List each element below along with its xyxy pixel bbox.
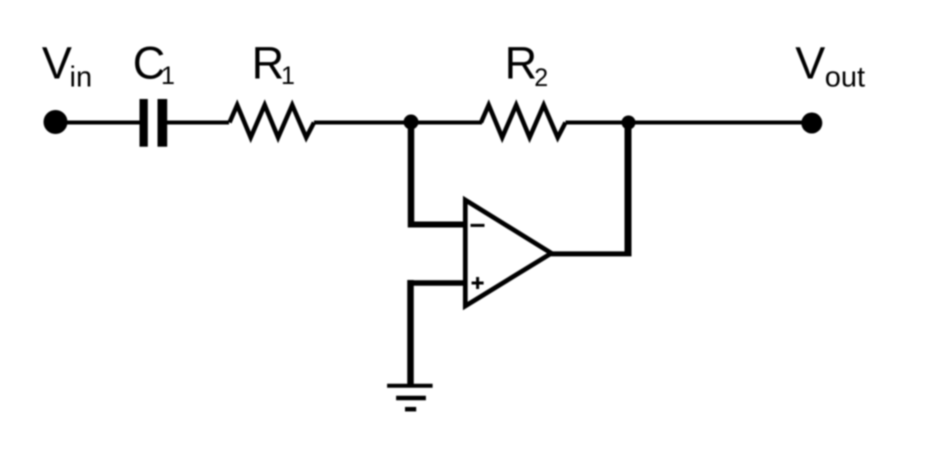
svg-text:1: 1 <box>281 62 295 90</box>
svg-text:R: R <box>505 37 537 88</box>
svg-text:out: out <box>825 62 865 94</box>
svg-text:in: in <box>70 62 93 94</box>
svg-text:V: V <box>795 37 825 88</box>
svg-text:1: 1 <box>161 62 175 90</box>
svg-text:V: V <box>42 37 72 88</box>
svg-text:2: 2 <box>534 64 548 92</box>
svg-text:R: R <box>252 37 285 88</box>
